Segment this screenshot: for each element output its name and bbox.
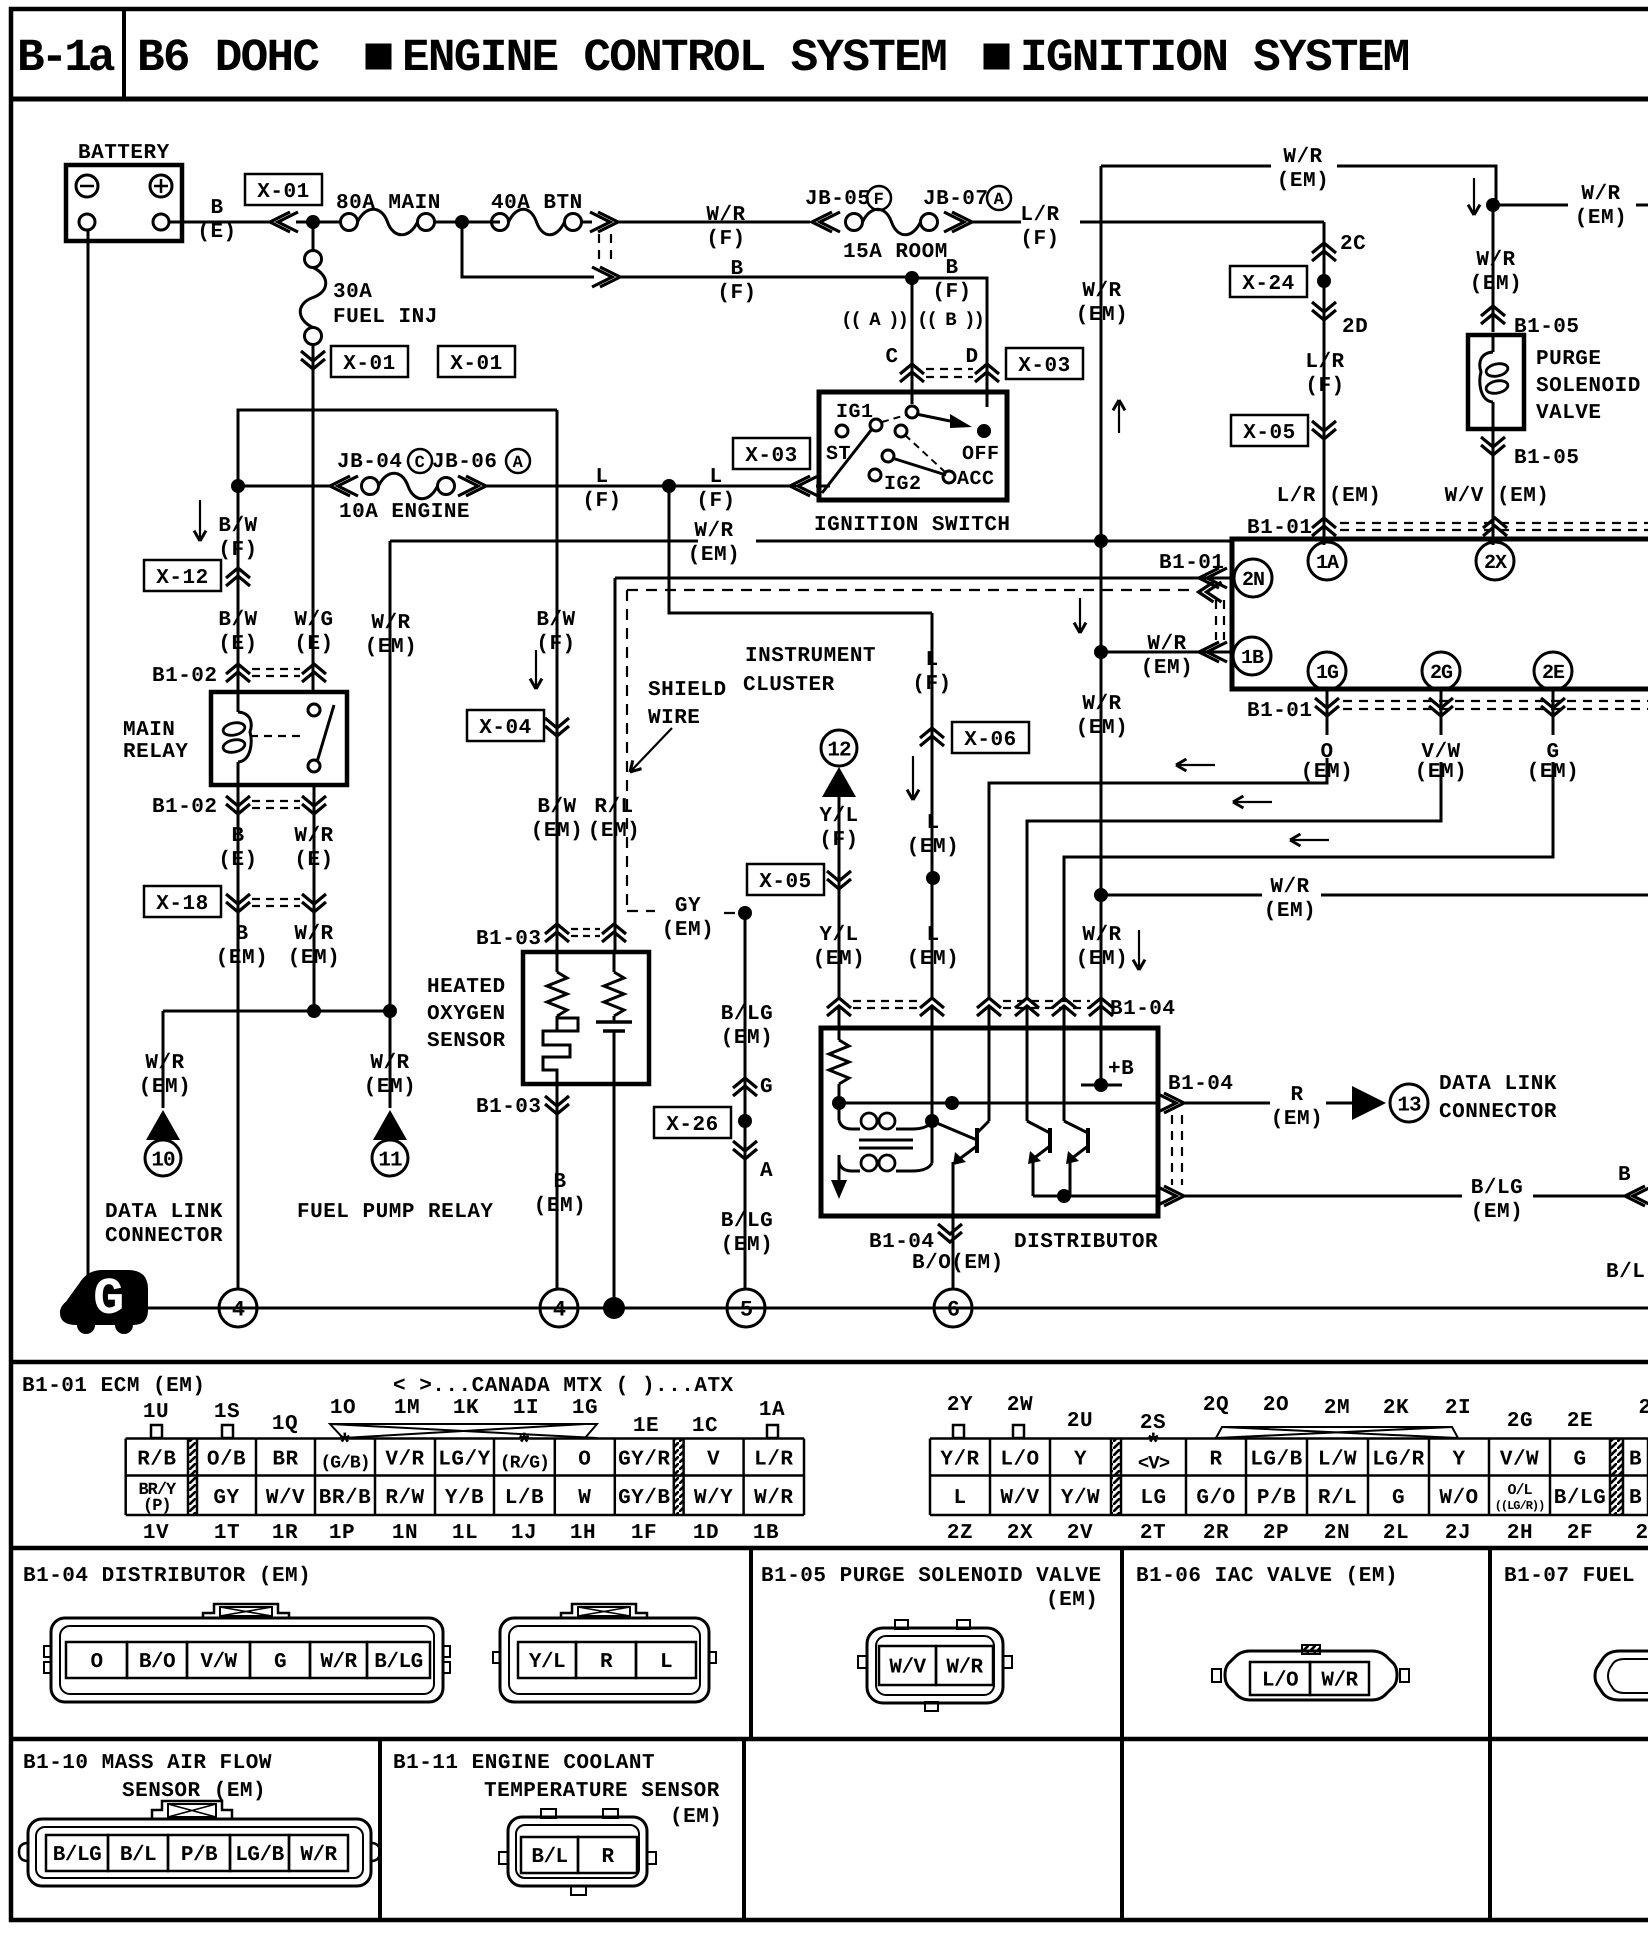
svg-text:G: G xyxy=(93,1270,125,1329)
label box X-26 xyxy=(654,1107,731,1138)
svg-text:B/L: B/L xyxy=(120,1844,156,1867)
svg-text:+B: +B xyxy=(1108,1058,1134,1081)
svg-text:B/O: B/O xyxy=(139,1651,175,1674)
svg-text:R/L: R/L xyxy=(594,796,633,819)
arrow to 11 xyxy=(373,1110,407,1140)
svg-text:(( B )): (( B )) xyxy=(917,309,983,331)
svg-text:(F): (F) xyxy=(717,282,756,305)
connector X-04 chevron xyxy=(545,718,569,728)
main relay dashed link xyxy=(250,735,306,737)
wire Y/L into distributor xyxy=(838,1007,841,1040)
arrow down B/W xyxy=(535,650,537,689)
junction node coil xyxy=(925,1114,939,1128)
label box X-01 lower xyxy=(331,346,408,377)
fuse 80A MAIN xyxy=(341,214,358,231)
connector B1-04 chevron B/O xyxy=(938,1224,962,1234)
svg-text:Y/R: Y/R xyxy=(940,1449,979,1472)
svg-text:O/L: O/L xyxy=(1507,1482,1532,1499)
arrow to 13 xyxy=(1352,1086,1386,1120)
svg-text:(EM): (EM) xyxy=(721,1234,773,1257)
svg-text:30A: 30A xyxy=(333,281,372,304)
svg-text:GY/R: GY/R xyxy=(618,1449,670,1472)
svg-text:(EM): (EM) xyxy=(288,947,340,970)
svg-text:JB-04: JB-04 xyxy=(337,451,403,474)
svg-text:(F): (F) xyxy=(706,228,745,251)
svg-text:B/LG: B/LG xyxy=(374,1651,422,1674)
distributor rail xyxy=(839,1102,1158,1105)
wire L/R drop xyxy=(1323,222,1326,545)
svg-text:B: B xyxy=(1618,1164,1631,1187)
svg-text:GY: GY xyxy=(213,1487,239,1510)
svg-text:MAIN: MAIN xyxy=(123,719,175,742)
svg-text:L: L xyxy=(926,812,939,835)
svg-text:W/R: W/R xyxy=(946,1657,983,1680)
svg-text:B1-03: B1-03 xyxy=(476,928,542,951)
battery B1 xyxy=(66,165,182,241)
svg-text:W/O: W/O xyxy=(1439,1487,1478,1510)
ECM pin 2G xyxy=(1422,652,1460,690)
svg-text:B: B xyxy=(231,825,244,848)
distributor box B1-04 xyxy=(821,1028,1158,1216)
svg-text:LG: LG xyxy=(1140,1487,1166,1510)
svg-text:B1-01: B1-01 xyxy=(1247,700,1313,723)
connector B1-04 chevron row xyxy=(827,998,851,1008)
ECM U1 box B1-01 xyxy=(1232,539,1648,620)
wire W/G main relay feed xyxy=(312,410,315,692)
wire 2G V/W to distributor xyxy=(1027,762,1441,1000)
page border bottom xyxy=(9,1918,1648,1923)
svg-text:W/G: W/G xyxy=(294,609,333,632)
ECM pin 1B xyxy=(1233,637,1271,675)
connector drawing B1-07 partial xyxy=(1595,1651,1648,1700)
svg-text:X-12: X-12 xyxy=(156,567,208,590)
svg-text:L/B: L/B xyxy=(505,1487,544,1510)
svg-text:W/R: W/R xyxy=(1270,876,1309,899)
svg-text:(EM): (EM) xyxy=(1470,273,1522,296)
connector B1-03 chevron bottom xyxy=(545,1096,569,1106)
svg-text:CONNECTOR: CONNECTOR xyxy=(1439,1101,1557,1124)
svg-text:2U: 2U xyxy=(1067,1410,1093,1433)
svg-text:((LG/R)): ((LG/R)) xyxy=(1495,1499,1545,1513)
svg-text:BR/B: BR/B xyxy=(319,1487,371,1510)
destination 12 circle xyxy=(821,730,857,766)
svg-text:B1-10 MASS AIR FLOW: B1-10 MASS AIR FLOW xyxy=(23,1752,272,1775)
svg-text:FUEL INJ: FUEL INJ xyxy=(333,306,438,329)
connector X-01 chevron on battery feed xyxy=(270,212,290,232)
connector B1-05 chevron top xyxy=(1481,306,1505,316)
junction node W/R 895 xyxy=(1094,888,1108,902)
connector B1-04 dashed row xyxy=(853,1000,918,1002)
svg-text:(EM): (EM) xyxy=(1076,717,1128,740)
oxygen sensor heater element xyxy=(556,1016,559,1030)
svg-text:A: A xyxy=(513,454,524,473)
ignition switch dashed links xyxy=(882,415,906,422)
junction node X-24 xyxy=(1317,274,1331,288)
svg-text:1A: 1A xyxy=(759,1399,785,1422)
svg-text:(EM): (EM) xyxy=(588,820,640,843)
svg-text:VALVE: VALVE xyxy=(1536,402,1602,425)
connector X-26 chevron G xyxy=(733,1078,757,1088)
svg-text:B-1a: B-1a xyxy=(17,32,115,84)
ECM connector table left half xyxy=(126,1437,804,1440)
svg-text:(E): (E) xyxy=(218,633,257,656)
junction node 1B xyxy=(1094,645,1108,659)
svg-text:X-01: X-01 xyxy=(257,181,309,204)
svg-text:R/W: R/W xyxy=(385,1487,424,1510)
svg-text:W/V (EM): W/V (EM) xyxy=(1445,485,1550,508)
svg-text:F: F xyxy=(874,191,885,210)
wire 2E into distributor xyxy=(1063,1007,1066,1121)
section divider B1-06/B1-07 xyxy=(1488,1548,1492,1920)
svg-text:L/R: L/R xyxy=(1305,351,1344,374)
label box X-05 left xyxy=(747,864,824,895)
svg-text:(F): (F) xyxy=(819,829,858,852)
svg-text:(( A )): (( A )) xyxy=(841,309,907,331)
arrow down W/R dist xyxy=(1138,930,1140,970)
svg-text:1D: 1D xyxy=(693,1522,719,1545)
shield dashed to ECM xyxy=(627,589,1192,591)
label box X-03 left xyxy=(733,438,810,469)
svg-text:B1-02: B1-02 xyxy=(152,665,218,688)
connector X-12 chevron xyxy=(226,568,250,578)
oxygen sensor heater resistor xyxy=(556,952,559,972)
svg-text:(P): (P) xyxy=(143,1497,171,1516)
connector B1-05 tabs xyxy=(895,1620,908,1629)
connector B1-05 chevron bottom xyxy=(1492,429,1495,545)
svg-text:W/R: W/R xyxy=(370,1052,409,1075)
wire relay outputs xyxy=(237,785,240,1289)
wire B/W top loop xyxy=(238,410,557,486)
svg-text:B1-11 ENGINE COOLANT: B1-11 ENGINE COOLANT xyxy=(393,1752,655,1775)
connector X-24 chevron 2C xyxy=(1312,243,1336,253)
svg-text:LG/B: LG/B xyxy=(235,1844,284,1867)
svg-text:B/LG: B/LG xyxy=(1554,1487,1606,1510)
svg-text:1N: 1N xyxy=(392,1522,418,1545)
ECM table left crossover bracket xyxy=(330,1424,597,1438)
distributor resistor xyxy=(829,1040,849,1084)
ignition coil secondary xyxy=(839,1162,860,1171)
svg-text:B1-04 DISTRIBUTOR (EM): B1-04 DISTRIBUTOR (EM) xyxy=(23,1565,311,1588)
svg-text:B/L: B/L xyxy=(531,1846,567,1869)
junction node W/R right xyxy=(1486,198,1500,212)
svg-text:B1-03: B1-03 xyxy=(476,1096,542,1119)
svg-text:IGNITION SWITCH: IGNITION SWITCH xyxy=(814,514,1011,537)
svg-text:CLUSTER: CLUSTER xyxy=(743,674,835,697)
svg-text:2X: 2X xyxy=(1007,1522,1033,1545)
connector B1-04 pins xyxy=(66,1642,127,1678)
svg-text:JB-06: JB-06 xyxy=(432,451,498,474)
svg-text:(EM): (EM) xyxy=(364,1076,416,1099)
svg-text:2W: 2W xyxy=(1007,1394,1033,1417)
wire battery positive feed xyxy=(169,221,272,224)
distributor internal ground arrow xyxy=(831,1180,847,1199)
svg-text:R: R xyxy=(600,1651,613,1674)
label box X-18 xyxy=(144,886,221,917)
shield wire dashed box xyxy=(626,590,628,911)
svg-text:W/R: W/R xyxy=(1147,633,1186,656)
destination 13 circle xyxy=(1390,1084,1428,1122)
oxygen sensor cell resistor xyxy=(613,952,616,972)
svg-text:B/LG: B/LG xyxy=(53,1844,101,1867)
svg-text:L: L xyxy=(926,924,939,947)
connector B1-05 pins xyxy=(879,1646,936,1685)
ECM pin 2N xyxy=(1234,559,1272,597)
svg-text:X-18: X-18 xyxy=(156,893,208,916)
svg-text:R/L: R/L xyxy=(1318,1487,1357,1510)
svg-text:(EM): (EM) xyxy=(721,1027,773,1050)
svg-text:(EM): (EM) xyxy=(662,919,714,942)
ground symbol G xyxy=(61,1271,147,1324)
svg-text:L/O: L/O xyxy=(1262,1670,1298,1693)
label box X-04 xyxy=(467,710,544,741)
section divider B1-11 right xyxy=(742,1739,746,1920)
svg-text:(EM): (EM) xyxy=(1076,304,1128,327)
svg-text:(EM): (EM) xyxy=(688,544,740,567)
svg-text:2T: 2T xyxy=(1140,1522,1166,1545)
table separator low xyxy=(9,1737,1648,1742)
svg-text:(F): (F) xyxy=(536,633,575,656)
connector B1-04 chevron BLG out xyxy=(1156,1186,1176,1206)
purge solenoid coil xyxy=(1492,335,1495,352)
svg-text:IG2: IG2 xyxy=(884,473,922,496)
svg-text:(EM): (EM) xyxy=(534,1195,586,1218)
wire W/R EM vertical left xyxy=(1100,166,1103,541)
svg-text:O: O xyxy=(578,1449,591,1472)
wire L (F) to ignition switch xyxy=(484,485,796,488)
table separator top xyxy=(9,1360,1648,1365)
svg-text:40A BTN: 40A BTN xyxy=(491,192,583,215)
connector B1-01 chevron 2G xyxy=(1440,690,1443,735)
wire B/LG EM long xyxy=(1184,1195,1462,1198)
arrow down B/W F xyxy=(199,500,201,541)
connector B1-11 pins xyxy=(521,1837,578,1873)
svg-text:IGNITION SYSTEM: IGNITION SYSTEM xyxy=(1020,32,1409,84)
svg-text:(EM): (EM) xyxy=(139,1076,191,1099)
junction node W/R b xyxy=(383,1004,397,1018)
svg-text:(EM): (EM) xyxy=(907,948,959,971)
svg-text:(EM): (EM) xyxy=(813,948,865,971)
svg-text:JB-07: JB-07 xyxy=(923,188,989,211)
connector chevron shield xyxy=(1199,582,1214,602)
connector B1-02 dashed link xyxy=(252,668,300,670)
svg-text:W/R: W/R xyxy=(1082,693,1121,716)
fuse 40A BTN xyxy=(492,214,509,231)
ignition switch SW1 box xyxy=(819,392,1007,500)
svg-text:A: A xyxy=(760,1160,773,1183)
svg-text:Y/B: Y/B xyxy=(445,1487,484,1510)
connector X-26 chevron A xyxy=(733,1141,757,1151)
section divider B1-04/B1-05 xyxy=(749,1548,753,1739)
svg-text:2O: 2O xyxy=(1263,1394,1289,1417)
transistor Q2 xyxy=(1048,1128,1052,1153)
connector 3-pin tab xyxy=(561,1604,647,1618)
junction node W/R mid xyxy=(1094,534,1108,548)
svg-text:15A ROOM: 15A ROOM xyxy=(843,241,948,264)
junction node W/R a xyxy=(307,1004,321,1018)
page border top xyxy=(9,7,1648,12)
arrow left 2G xyxy=(1233,801,1272,803)
svg-text:B1-02: B1-02 xyxy=(152,796,218,819)
wire B/W to relay xyxy=(237,486,240,692)
svg-text:1G: 1G xyxy=(572,1397,598,1420)
svg-text:L/R: L/R xyxy=(1020,204,1059,227)
svg-text:(EM): (EM) xyxy=(216,947,268,970)
title bar bottom rule xyxy=(9,97,1648,102)
svg-text:FUEL PUMP RELAY: FUEL PUMP RELAY xyxy=(297,1201,494,1224)
connector X-03 dashed link xyxy=(926,368,973,370)
svg-text:B: B xyxy=(210,197,223,220)
svg-text:DISTRIBUTOR: DISTRIBUTOR xyxy=(1014,1231,1158,1254)
svg-text:V: V xyxy=(707,1449,720,1472)
svg-text:W/R: W/R xyxy=(1082,924,1121,947)
svg-text:W/V: W/V xyxy=(1000,1487,1039,1510)
svg-text:X-01: X-01 xyxy=(343,353,395,376)
arrow up W/R xyxy=(1118,400,1120,433)
svg-text:L/W: L/W xyxy=(1318,1449,1357,1472)
svg-text:1K: 1K xyxy=(453,1397,479,1420)
connector B1-06 pins xyxy=(1250,1662,1310,1695)
svg-text:(EM): (EM) xyxy=(1046,1589,1098,1612)
wire L/R (F) to corner xyxy=(970,221,1021,224)
svg-text:1A: 1A xyxy=(1316,552,1339,575)
label box X-01 top xyxy=(245,174,322,205)
svg-text:80A MAIN: 80A MAIN xyxy=(336,192,441,215)
svg-text:V/W: V/W xyxy=(200,1651,237,1674)
connector B1-03 dashed link xyxy=(571,928,600,930)
svg-text:G: G xyxy=(274,1651,286,1674)
wire 2N from instrument cluster xyxy=(615,577,1234,580)
wire to 11 xyxy=(389,1011,392,1108)
svg-text:4: 4 xyxy=(553,1298,566,1323)
arrow left 1G xyxy=(1176,764,1215,766)
svg-text:2J: 2J xyxy=(1445,1522,1471,1545)
ECM pin 1G xyxy=(1308,652,1346,690)
svg-text:DATA LINK: DATA LINK xyxy=(1439,1073,1557,1096)
svg-text:1S: 1S xyxy=(214,1401,240,1424)
svg-text:W/R: W/R xyxy=(294,825,333,848)
svg-text:Y/L: Y/L xyxy=(819,805,858,828)
svg-text:B1-06 IAC VALVE (EM): B1-06 IAC VALVE (EM) xyxy=(1136,1565,1398,1588)
svg-text:B1-07 FUEL: B1-07 FUEL xyxy=(1504,1565,1635,1588)
ignition coil primary xyxy=(838,1103,841,1120)
svg-text:Y/W: Y/W xyxy=(1061,1487,1100,1510)
junction node GY xyxy=(738,906,752,920)
svg-text:X-04: X-04 xyxy=(479,717,531,740)
svg-text:(E): (E) xyxy=(197,221,236,244)
svg-text:W/R: W/R xyxy=(1476,249,1515,272)
svg-text:10: 10 xyxy=(151,1149,175,1172)
junction node X-26 xyxy=(738,1114,752,1128)
svg-text:W/V: W/V xyxy=(889,1657,926,1680)
connector X-24 chevron 2D xyxy=(1312,302,1336,312)
svg-text:10A ENGINE: 10A ENGINE xyxy=(339,501,470,524)
svg-text:X-03: X-03 xyxy=(745,445,797,468)
wire B (F) to ignition switch xyxy=(618,276,912,279)
svg-text:4: 4 xyxy=(232,1298,245,1323)
svg-text:1P: 1P xyxy=(329,1522,355,1545)
svg-text:C: C xyxy=(415,454,426,473)
svg-text:O/B: O/B xyxy=(207,1449,246,1472)
svg-text:Y: Y xyxy=(1452,1449,1465,1472)
svg-text:2: 2 xyxy=(1635,1522,1648,1545)
connector B1-04 dashed link right xyxy=(1171,1115,1173,1185)
svg-text:W/Y: W/Y xyxy=(694,1487,733,1510)
wire 80A to 40A xyxy=(434,221,500,224)
junction node rail b xyxy=(945,1096,959,1110)
ECM table right index tabs xyxy=(953,1425,964,1438)
ECM pin 2E xyxy=(1534,652,1572,690)
svg-text:2C: 2C xyxy=(1340,233,1366,256)
svg-text:1O: 1O xyxy=(330,1397,356,1420)
wire B to D contact xyxy=(912,278,987,407)
svg-text:(EM): (EM) xyxy=(1471,1201,1523,1224)
connector B1-02 chevron br xyxy=(302,796,326,806)
svg-text:L/R (EM): L/R (EM) xyxy=(1277,485,1382,508)
svg-text:B1-05 PURGE SOLENOID VALVE: B1-05 PURGE SOLENOID VALVE xyxy=(761,1565,1102,1588)
svg-text:Y: Y xyxy=(1074,1449,1087,1472)
junction node emitters xyxy=(1057,1189,1071,1203)
svg-text:B6 DOHC: B6 DOHC xyxy=(137,32,319,84)
svg-text:(F): (F) xyxy=(932,281,971,304)
svg-text:1M: 1M xyxy=(394,1397,420,1420)
svg-text:OFF: OFF xyxy=(962,443,1000,466)
svg-text:(F): (F) xyxy=(1020,228,1059,251)
junction node +B xyxy=(1094,1078,1108,1092)
svg-text:L: L xyxy=(953,1487,966,1510)
svg-text:(F): (F) xyxy=(1305,375,1344,398)
wire W/R +B xyxy=(1100,1007,1103,1085)
svg-text:W/R: W/R xyxy=(294,923,333,946)
wire L F into switch xyxy=(816,485,830,488)
svg-text:1F: 1F xyxy=(631,1522,657,1545)
label box X-01 mid xyxy=(438,346,515,377)
connector X-01 chevron 30A xyxy=(312,344,315,410)
ground bus wire xyxy=(147,1307,1648,1310)
svg-text:2E: 2E xyxy=(1567,1410,1593,1433)
wire W/R EM distribution xyxy=(163,1010,390,1013)
svg-text:2H: 2H xyxy=(1507,1522,1533,1545)
svg-text:13: 13 xyxy=(1397,1094,1421,1117)
svg-text:V/R: V/R xyxy=(385,1449,424,1472)
connector B1-02 chevron left xyxy=(226,664,250,674)
connector chevron right edge xyxy=(1625,1186,1645,1206)
svg-text:DATA LINK: DATA LINK xyxy=(105,1201,223,1224)
svg-text:2I: 2I xyxy=(1445,1397,1471,1420)
title separator square 2 xyxy=(984,44,1009,69)
svg-text:2V: 2V xyxy=(1067,1522,1093,1545)
svg-text:W/R: W/R xyxy=(320,1651,357,1674)
wire battery negative to ground xyxy=(87,230,90,1277)
svg-text:OXYGEN: OXYGEN xyxy=(427,1003,506,1026)
svg-text:2M: 2M xyxy=(1324,1397,1350,1420)
svg-text:X-24: X-24 xyxy=(1242,273,1294,296)
svg-text:V/W: V/W xyxy=(1500,1449,1539,1472)
ground node 4b xyxy=(540,1289,578,1327)
svg-text:2G: 2G xyxy=(1507,1410,1533,1433)
svg-text:X-03: X-03 xyxy=(1018,355,1070,378)
svg-text:1U: 1U xyxy=(143,1401,169,1424)
svg-text:B1-04: B1-04 xyxy=(869,1231,935,1254)
ground node 6 xyxy=(934,1289,972,1327)
svg-text:D: D xyxy=(965,346,978,369)
connector B1-06 side ears xyxy=(1212,1669,1221,1682)
label box X-12 xyxy=(144,560,221,591)
wire R EM xyxy=(1184,1102,1270,1105)
svg-text:(EM): (EM) xyxy=(1271,1108,1323,1131)
svg-text:X-06: X-06 xyxy=(964,729,1016,752)
svg-text:2K: 2K xyxy=(1383,1397,1409,1420)
wire B (F) drop xyxy=(462,222,594,277)
